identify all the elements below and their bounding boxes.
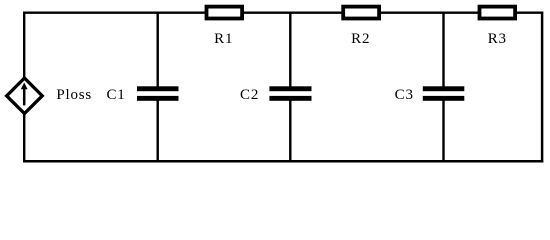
wire C3 branch lower bbox=[442, 100, 444, 162]
svg-text:R2: R2 bbox=[351, 31, 370, 47]
wire C2 branch upper bbox=[289, 12, 291, 88]
wire C2 branch lower bbox=[289, 100, 291, 162]
svg-text:C2: C2 bbox=[240, 87, 259, 103]
wire left side lower (source to bottom) bbox=[23, 112, 25, 163]
wire bottom rail bbox=[23, 160, 543, 163]
wire right side bbox=[541, 12, 544, 163]
wire top rail segment 1 (left corner to R1) bbox=[23, 11, 207, 13]
wire C1 branch upper bbox=[156, 12, 158, 88]
capacitor C1 bottom plate bbox=[137, 96, 179, 101]
wire top rail segment 4 (R3 to right corner) bbox=[515, 11, 543, 13]
capacitor C3 top plate bbox=[423, 86, 465, 91]
wire C3 branch upper bbox=[442, 12, 444, 88]
capacitor C2 bottom plate bbox=[269, 96, 311, 101]
svg-text:R3: R3 bbox=[488, 31, 507, 47]
wire left side upper (corner to source) bbox=[23, 12, 25, 81]
resistor R2 body bbox=[343, 7, 379, 19]
wire C1 branch lower bbox=[156, 100, 158, 162]
svg-text:R1: R1 bbox=[214, 31, 233, 47]
capacitor C3 bottom plate bbox=[423, 96, 465, 101]
capacitor C1 top plate bbox=[137, 86, 179, 91]
resistor R1 body bbox=[207, 7, 243, 19]
resistor R3 body bbox=[480, 7, 516, 19]
current source arrow head bbox=[21, 83, 28, 90]
wire top rail segment 2 (R1 to R2) bbox=[242, 11, 345, 13]
capacitor C2 top plate bbox=[269, 86, 311, 91]
svg-text:C3: C3 bbox=[395, 87, 414, 103]
svg-text:C1: C1 bbox=[106, 87, 125, 103]
current source Ploss (diamond symbol) bbox=[7, 78, 43, 114]
current source arrow shaft bbox=[23, 89, 26, 106]
wire top rail segment 3 (R2 to R3) bbox=[379, 11, 481, 13]
svg-text:Ploss: Ploss bbox=[56, 87, 92, 103]
